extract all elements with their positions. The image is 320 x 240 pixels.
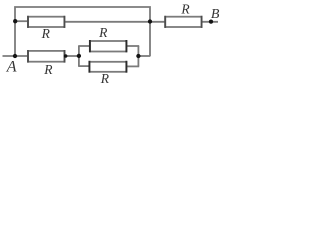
svg-text:R: R: [41, 26, 51, 41]
svg-text:A: A: [6, 58, 17, 75]
svg-text:R: R: [180, 2, 190, 17]
svg-text:R: R: [100, 71, 110, 86]
svg-text:R: R: [43, 62, 53, 77]
svg-text:R: R: [98, 25, 108, 40]
svg-text:B: B: [211, 7, 220, 22]
